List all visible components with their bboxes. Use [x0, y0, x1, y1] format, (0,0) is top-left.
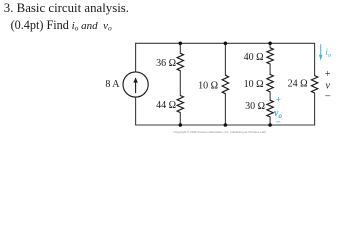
svg-text:3. Basic circuit analysis.: 3. Basic circuit analysis. [4, 1, 129, 15]
svg-text:10 Ω: 10 Ω [244, 79, 264, 90]
wire: right edge bottom segment [314, 93, 316, 125]
resistor 40ohm [267, 48, 273, 64]
current arrow io (blue, downward) [319, 44, 323, 60]
resistor 30ohm [267, 100, 273, 117]
svg-text:8 A: 8 A [105, 79, 120, 90]
junction node bottom 36/44 [179, 123, 183, 127]
svg-text:+: + [325, 69, 331, 80]
resistor 44ohm [177, 96, 183, 113]
resistor 36ohm [177, 53, 183, 71]
svg-text:44 Ω: 44 Ω [156, 100, 176, 111]
svg-text:−: − [276, 118, 281, 128]
svg-text:Copyright © 2011 Pearson Educa: Copyright © 2011 Pearson Education, Inc.… [173, 130, 265, 134]
wire: left edge top segment [135, 43, 137, 72]
svg-text:10 Ω: 10 Ω [198, 80, 218, 91]
junction node top 10 [224, 42, 228, 46]
wire: 36/44 branch segments [179, 43, 181, 125]
wire: left edge bottom segment [135, 97, 137, 125]
junction node top 36/44 [179, 42, 183, 46]
resistor 24ohm [311, 76, 317, 93]
resistor 10ohm (right branch) [267, 74, 273, 92]
svg-text:36 Ω: 36 Ω [156, 58, 176, 69]
svg-text:+: + [276, 95, 281, 105]
svg-text:(0.4pt) Find io and vo: (0.4pt) Find io and vo [11, 18, 112, 33]
wire: 10ohm branch segments [224, 43, 226, 125]
wire: 40/10/30 branch segments [269, 43, 271, 125]
wire: bottom rail [136, 124, 315, 126]
current source arrow (up) [133, 77, 137, 93]
svg-text:io: io [325, 48, 332, 59]
wire: right edge top segment (into 24ohm) [314, 43, 316, 75]
resistor 10ohm (middle branch) [222, 75, 228, 94]
junction node top 40 [268, 42, 272, 46]
wire: top rail [136, 42, 315, 44]
svg-text:40 Ω: 40 Ω [244, 52, 264, 63]
svg-text:24 Ω: 24 Ω [288, 79, 308, 90]
current source 8A circle [123, 72, 148, 97]
svg-text:−: − [325, 91, 331, 103]
svg-text:30 Ω: 30 Ω [245, 101, 265, 112]
junction node bottom 30 [268, 123, 272, 127]
junction node bottom 10 [224, 123, 228, 127]
